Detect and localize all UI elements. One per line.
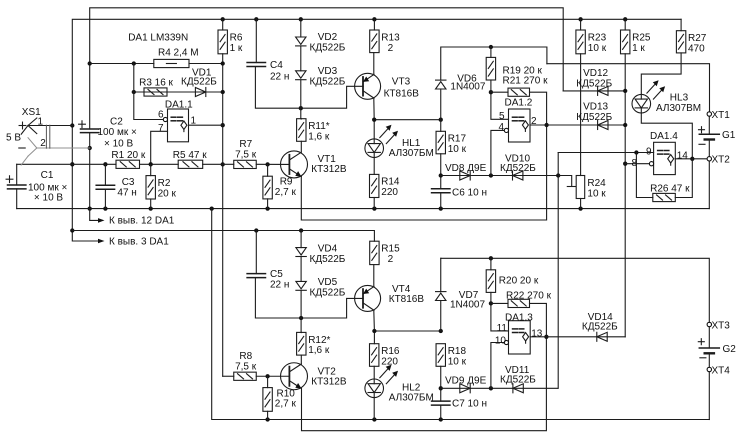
capacitor C5 22n xyxy=(247,231,289,291)
diode VD10 KD522B xyxy=(500,153,536,180)
wire VT2 collector / R12 xyxy=(300,355,302,364)
capacitor C2 100mkx10V xyxy=(79,117,137,150)
capacitor C6 10n xyxy=(432,188,487,199)
wire divider row (y=164.3) xyxy=(17,162,290,166)
svg-text:C3: C3 xyxy=(122,177,135,188)
svg-text:R3 16 к: R3 16 к xyxy=(139,77,173,88)
svg-text:13: 13 xyxy=(531,329,543,340)
svg-text:R15: R15 xyxy=(381,244,400,255)
svg-text:G2: G2 xyxy=(723,344,737,355)
svg-text:R22 270 к: R22 270 к xyxy=(506,290,552,301)
svg-text:C7 10 н: C7 10 н xyxy=(452,399,487,410)
transistor VT3 KT816V xyxy=(355,73,420,99)
diode VD3 KD522B xyxy=(296,66,346,87)
svg-text:R12*: R12* xyxy=(308,335,330,346)
diode VD4 KD522B xyxy=(296,244,346,265)
wire R8 feed from DA1.1 output xyxy=(223,375,234,377)
capacitor C1 100mkx10V xyxy=(6,164,67,208)
svg-text:АЛ307ВМ: АЛ307ВМ xyxy=(656,103,701,114)
svg-text:20 к: 20 к xyxy=(158,188,177,199)
svg-text:7: 7 xyxy=(158,123,164,134)
op-amp DA1.4 comparator xyxy=(631,131,688,174)
wire DA1 pin3 +5V lower bus (y=230.5) xyxy=(72,228,374,241)
svg-text:7,5 к: 7,5 к xyxy=(235,149,257,160)
wire top bus (C2+ net, y=8) xyxy=(90,8,564,91)
svg-text:КД522Б: КД522Б xyxy=(310,76,346,87)
svg-text:C2: C2 xyxy=(110,117,123,128)
node К выв. 3 DA1 (V+ pin of DA1) xyxy=(98,236,169,247)
resistor R9 2.7k xyxy=(263,164,297,208)
wire R19-R21 junction / DA1.2 pin5 xyxy=(489,80,509,119)
wire VD7 bottom lead xyxy=(440,301,442,332)
svg-text:R18: R18 xyxy=(448,346,467,357)
wire G1 battery links xyxy=(708,116,710,156)
svg-text:470: 470 xyxy=(688,44,705,55)
wire DA1.1 output column (x=222.7) xyxy=(221,54,225,376)
resistor R19 20k xyxy=(486,57,542,80)
wire R16-HL2 link xyxy=(373,366,375,419)
svg-text:2,7 к: 2,7 к xyxy=(275,187,297,198)
LED HL3 AL307VM xyxy=(632,80,701,114)
resistor R11* 1.6k xyxy=(297,119,330,143)
wire VD2-VD3 column (x=300.8) xyxy=(300,19,302,118)
svg-text:КТ816В: КТ816В xyxy=(389,294,425,305)
svg-text:47 н: 47 н xyxy=(117,188,136,199)
svg-text:1 к: 1 к xyxy=(632,43,645,54)
wire VT4 collector row (y=331) xyxy=(372,310,443,343)
wire VT2 base node xyxy=(256,374,289,378)
diode VD7 1N4007 xyxy=(436,290,486,311)
svg-text:R5 47 к: R5 47 к xyxy=(173,150,207,161)
svg-text:R16: R16 xyxy=(381,346,400,357)
wire R18-C7 column xyxy=(439,366,443,419)
wire C5 bottom to VT4 base node xyxy=(255,278,301,318)
svg-text:10 к: 10 к xyxy=(448,144,467,155)
svg-text:1N4007: 1N4007 xyxy=(450,82,485,93)
transistor VT1 KT312V xyxy=(281,151,347,178)
svg-text:100 мк ×: 100 мк × xyxy=(98,127,137,138)
capacitor C3 47n xyxy=(96,164,137,208)
svg-text:R4 2,4 М: R4 2,4 М xyxy=(158,48,199,59)
resistor R24 10k trimmer xyxy=(576,176,606,200)
terminal XT1 xyxy=(707,110,730,121)
svg-text:R2: R2 xyxy=(158,178,171,189)
svg-text:4: 4 xyxy=(498,122,504,133)
connector XS1 xyxy=(6,107,90,165)
wire VD3 node to VT3 base xyxy=(299,86,363,110)
wire VT1 emitter to DA1.2 output (y=220) xyxy=(301,92,548,220)
svg-text:× 10 В: × 10 В xyxy=(104,139,134,150)
capacitor C7 10n xyxy=(432,399,487,410)
svg-text:КД522Б: КД522Б xyxy=(500,163,536,174)
svg-text:R23: R23 xyxy=(588,32,607,43)
svg-text:КД522Б: КД522Б xyxy=(500,374,536,385)
svg-text:R17: R17 xyxy=(448,134,467,145)
svg-text:XT1: XT1 xyxy=(712,110,731,121)
wire C4 bottom to VT3 base node xyxy=(255,67,300,109)
svg-text:R27: R27 xyxy=(688,33,707,44)
svg-text:DA1 LM339N: DA1 LM339N xyxy=(128,32,188,43)
wire DA1.2 pin4 input xyxy=(491,130,504,175)
resistor R25 1k xyxy=(621,19,651,54)
svg-text:VD2: VD2 xyxy=(318,32,338,43)
svg-text:R24: R24 xyxy=(587,178,606,189)
resistor R8 7.5k xyxy=(234,351,257,380)
svg-text:КД522Б: КД522Б xyxy=(582,321,618,332)
svg-text:R26 47 к: R26 47 к xyxy=(650,183,690,194)
svg-text:1: 1 xyxy=(38,117,44,128)
resistor R26 47k xyxy=(650,183,690,201)
terminal XT3 xyxy=(707,320,730,331)
wire VT4 emitter / R15 xyxy=(373,265,375,287)
resistor R14 220 xyxy=(370,174,400,198)
terminal XT2 xyxy=(707,155,730,166)
diode VD6 1N4007 xyxy=(436,74,486,93)
svg-text:XT2: XT2 xyxy=(712,155,731,166)
svg-text:7,5 к: 7,5 к xyxy=(235,362,257,373)
svg-text:6: 6 xyxy=(158,109,164,120)
svg-text:22 н: 22 н xyxy=(270,280,289,291)
diode VD9 D9E xyxy=(445,375,487,393)
svg-text:VD9 Д9Е: VD9 Д9Е xyxy=(445,375,487,386)
svg-text:DA1.4: DA1.4 xyxy=(650,131,678,142)
wire R4 node (y=63.5) xyxy=(90,61,223,65)
svg-text:10 к: 10 к xyxy=(588,43,607,54)
svg-text:11: 11 xyxy=(497,323,508,334)
svg-text:1N4007: 1N4007 xyxy=(450,300,485,311)
label DA1 LM339N xyxy=(128,32,188,43)
wire VD7 top lead xyxy=(440,258,442,291)
battery G2 xyxy=(698,339,736,358)
resistor R15 2 xyxy=(370,241,400,265)
wire VT3 emitter / R13 xyxy=(373,53,375,75)
resistor R1 20k xyxy=(111,150,145,168)
svg-text:КТ816В: КТ816В xyxy=(384,88,420,99)
wire G1 plus bus (y=63.7) xyxy=(547,64,710,112)
svg-text:5: 5 xyxy=(499,111,505,122)
wire VD8/VD10 threshold row (y=175.5) xyxy=(441,173,561,177)
wire G2 battery links xyxy=(708,327,710,368)
svg-text:R6: R6 xyxy=(230,32,243,43)
svg-text:× 10 В: × 10 В xyxy=(34,192,64,203)
wire HL1-R14 link xyxy=(373,158,375,209)
svg-text:КТ312В: КТ312В xyxy=(311,164,347,175)
battery G1 xyxy=(699,127,736,145)
wire R3/VD1 (y=92) xyxy=(132,90,223,94)
svg-text:КД522Б: КД522Б xyxy=(310,254,346,265)
svg-text:1: 1 xyxy=(191,116,197,127)
wire R17-C6 column xyxy=(439,154,443,209)
svg-text:R11*: R11* xyxy=(308,121,330,132)
svg-text:10 к: 10 к xyxy=(587,188,606,199)
resistor R20 20k xyxy=(486,270,539,293)
svg-text:5 В: 5 В xyxy=(6,133,21,144)
wire R20 top lead xyxy=(490,258,492,270)
svg-text:2: 2 xyxy=(388,43,394,54)
resistor R4 2.4M xyxy=(154,48,199,68)
wire HL3 anode from R27 xyxy=(641,53,681,95)
wire R23-R24 column (x=580.6) xyxy=(580,54,582,209)
wire XS1 plus vertical to DA1 pin3 bus xyxy=(70,123,99,241)
svg-text:2,7 к: 2,7 к xyxy=(275,399,297,410)
wire DA1.1 pin7 input xyxy=(151,131,168,164)
wire lower ground bus (y=419.5) xyxy=(212,209,710,422)
svg-text:14: 14 xyxy=(677,150,689,161)
svg-text:КД522Б: КД522Б xyxy=(181,77,217,88)
svg-text:DA1.1: DA1.1 xyxy=(165,99,193,110)
wire DA1.3 output / VD14 row (y=336.8) xyxy=(530,336,625,338)
diode VD1 KD522B xyxy=(181,68,217,97)
wire R24 wiper xyxy=(558,176,576,187)
LED HL1 AL307BM xyxy=(365,125,434,159)
wire DA1.4 pin8 input xyxy=(625,163,649,165)
capacitor C4 22n xyxy=(247,19,289,82)
op-amp DA1.3 comparator xyxy=(495,312,543,354)
svg-text:XT3: XT3 xyxy=(712,320,731,331)
svg-text:10 к: 10 к xyxy=(448,357,467,368)
wire DA1.4 pin9 row (y=152.5) xyxy=(558,150,653,154)
svg-text:R1 20 к: R1 20 к xyxy=(111,150,145,161)
wire R26 feedback loop xyxy=(636,153,692,198)
node К выв. 12 DA1 (GND pin of DA1) xyxy=(90,209,175,227)
wire R20-R22 junction / DA1.3 pin11 xyxy=(489,292,509,331)
svg-text:2: 2 xyxy=(40,138,46,149)
wire VD6 bottom lead xyxy=(440,89,442,120)
svg-text:XT4: XT4 xyxy=(712,365,731,376)
resistor R10 2.7k xyxy=(263,376,297,419)
diode VD2 KD522B xyxy=(296,32,346,53)
diode VD12 KD522B xyxy=(576,68,612,95)
svg-text:C1: C1 xyxy=(41,170,54,181)
svg-text:1,6 к: 1,6 к xyxy=(308,345,330,356)
resistor R3 16k xyxy=(139,77,173,96)
diode VD14 KD522B xyxy=(582,312,618,341)
svg-text:АЛ307БМ: АЛ307БМ xyxy=(389,393,434,404)
diode VD11 KD522B xyxy=(500,365,536,393)
svg-text:КД522Б: КД522Б xyxy=(576,112,612,123)
resistor R5 47k xyxy=(173,150,207,168)
resistor R23 10k xyxy=(576,19,607,54)
svg-text:C5: C5 xyxy=(270,269,283,280)
svg-text:R20 20 к: R20 20 к xyxy=(499,275,539,286)
resistor R7 7.5k xyxy=(234,139,257,169)
svg-text:10: 10 xyxy=(495,335,507,346)
svg-text:G1: G1 xyxy=(722,130,736,141)
wire XT2 to ground bus xyxy=(708,161,710,209)
wire HL3 cathode to DA1.4 output xyxy=(641,113,692,159)
wire DA1.1 pin6 input xyxy=(134,64,163,120)
wire VD4-VD5 column (x=301.1) xyxy=(300,231,302,333)
wire threshold column (x=558.2) xyxy=(557,153,559,389)
svg-text:АЛ307БМ: АЛ307БМ xyxy=(389,148,434,159)
terminal XT4 xyxy=(707,365,730,376)
svg-text:VD12: VD12 xyxy=(583,68,608,79)
svg-text:1 к: 1 к xyxy=(230,43,243,54)
wire VT3 collector row (y=119.7) xyxy=(372,98,443,139)
resistor R21 270k xyxy=(503,76,549,97)
svg-text:2: 2 xyxy=(388,254,394,265)
wire VT2 emitter to DA1.3 output (y=430.7) xyxy=(302,303,549,430)
svg-text:8: 8 xyxy=(631,158,637,169)
wire R19 top lead xyxy=(490,47,492,57)
svg-text:22 н: 22 н xyxy=(270,71,289,82)
diode VD5 KD522B xyxy=(296,277,346,298)
resistor R13 2 xyxy=(370,19,400,54)
wire ground bus (y=208.6) xyxy=(17,206,710,210)
svg-text:C6 10 н: C6 10 н xyxy=(452,188,487,199)
svg-text:DA1.2: DA1.2 xyxy=(505,98,533,109)
wire +5V bus (y=19) xyxy=(72,17,681,125)
wire DA1.3 pin10 input xyxy=(491,343,504,389)
svg-text:К выв. 12 DA1: К выв. 12 DA1 xyxy=(109,216,175,227)
wire XS1 minus vertical (x=89.7) xyxy=(88,61,92,210)
op-amp DA1.1 comparator xyxy=(158,99,197,142)
resistor R22 270k xyxy=(506,290,552,307)
resistor R6 1k xyxy=(218,19,243,54)
resistor R17 10k xyxy=(436,120,467,155)
svg-text:КД522Б: КД522Б xyxy=(310,42,346,53)
svg-text:220: 220 xyxy=(381,187,398,198)
svg-text:C4: C4 xyxy=(270,60,283,71)
wire DA1.1 output to R7/R5 (y=125.2) xyxy=(189,124,223,126)
op-amp DA1.2 comparator xyxy=(498,98,537,143)
wire VT1 collector / R11 xyxy=(300,141,302,152)
resistor R2 20k xyxy=(146,164,177,208)
wire VD9/VD11 row (y=388.3) xyxy=(441,386,558,390)
svg-text:VD8 Д9Е: VD8 Д9Е xyxy=(445,163,487,174)
svg-text:9: 9 xyxy=(646,146,652,157)
svg-text:1,6 к: 1,6 к xyxy=(308,132,330,143)
svg-text:R21 270 к: R21 270 к xyxy=(503,76,549,87)
resistor R12* 1.6k xyxy=(297,332,331,356)
diode VD8 D9E xyxy=(445,163,487,180)
transistor VT2 KT312V xyxy=(281,363,347,390)
svg-text:К выв. 3 DA1: К выв. 3 DA1 xyxy=(109,236,169,247)
transistor VT4 KT816V xyxy=(355,284,425,311)
svg-text:КД522Б: КД522Б xyxy=(310,287,346,298)
svg-text:VT3: VT3 xyxy=(392,77,411,88)
svg-text:КД522Б: КД522Б xyxy=(576,79,612,90)
svg-text:R14: R14 xyxy=(381,177,400,188)
wire XT4 to lower ground bus xyxy=(708,372,710,420)
svg-text:R25: R25 xyxy=(632,32,651,43)
resistor R27 470 xyxy=(676,19,706,54)
wire DA1.2 output / VD13 row (y=125) xyxy=(530,124,625,126)
resistor R16 220 xyxy=(370,344,400,368)
wire VD12 row (y=90.9) xyxy=(563,90,625,92)
svg-text:VD13: VD13 xyxy=(583,102,608,113)
diode VD13 KD522B xyxy=(576,102,612,130)
wire VD6 top row (y=47) xyxy=(441,45,547,80)
wire VD5 node to VT4 base xyxy=(299,298,363,320)
LED HL2 AL307BM xyxy=(365,365,434,404)
wire R25 column (x=625.2) xyxy=(623,54,627,337)
svg-text:КТ312В: КТ312В xyxy=(311,376,347,387)
svg-text:R13: R13 xyxy=(381,32,400,43)
svg-text:DA1.3: DA1.3 xyxy=(505,312,533,323)
wire DA1.2 pin2 output stub xyxy=(530,124,547,126)
wire XT3 feed row (y=258.3) xyxy=(441,256,710,322)
wire DA1.4 output row (y=158.8) xyxy=(675,157,707,161)
svg-text:2: 2 xyxy=(531,116,537,127)
resistor R18 10k xyxy=(436,344,467,368)
